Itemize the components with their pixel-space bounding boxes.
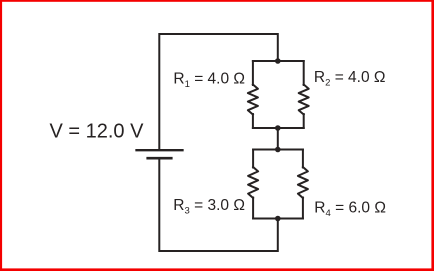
wire: leads of resistor R1 <box>252 61 254 85</box>
node D junction dot <box>275 216 281 222</box>
svg-text:R4 = 6.0 Ω: R4 = 6.0 Ω <box>314 199 386 219</box>
wire: connector from node B to node C <box>277 128 279 150</box>
wire: leads of resistor R2 <box>303 61 305 85</box>
resistor R4 zigzag <box>298 167 308 198</box>
svg-text:R2 = 4.0 Ω: R2 = 4.0 Ω <box>314 69 386 89</box>
battery V1 long plate (positive) <box>137 149 183 151</box>
node C junction dot <box>275 147 281 153</box>
node B junction dot <box>275 125 281 131</box>
battery V1 short plate (negative) <box>148 157 172 160</box>
wire: leads of resistor R3 <box>252 150 254 168</box>
wire: leads of resistor R4 <box>302 150 304 168</box>
wire: left rail top, top bus and drop to node A <box>159 34 277 150</box>
wire: left rail bottom, bottom bus and rise to node D <box>159 159 277 252</box>
svg-text:R3 = 3.0 Ω: R3 = 3.0 Ω <box>173 197 245 217</box>
node A junction dot <box>275 58 281 64</box>
svg-text:R1 = 4.0 Ω: R1 = 4.0 Ω <box>173 70 245 90</box>
wire: top bus of parallel box 1 <box>253 60 304 62</box>
resistor R1 zigzag <box>248 85 258 115</box>
wire: bottom bus of parallel box 2 <box>253 218 303 220</box>
wire: top bus of parallel box 2 <box>253 149 303 151</box>
resistor R3 zigzag <box>248 167 258 198</box>
wire: bottom bus of parallel box 1 <box>253 127 304 129</box>
resistor R2 zigzag <box>299 85 309 115</box>
svg-text:V = 12.0 V: V = 12.0 V <box>50 121 145 143</box>
